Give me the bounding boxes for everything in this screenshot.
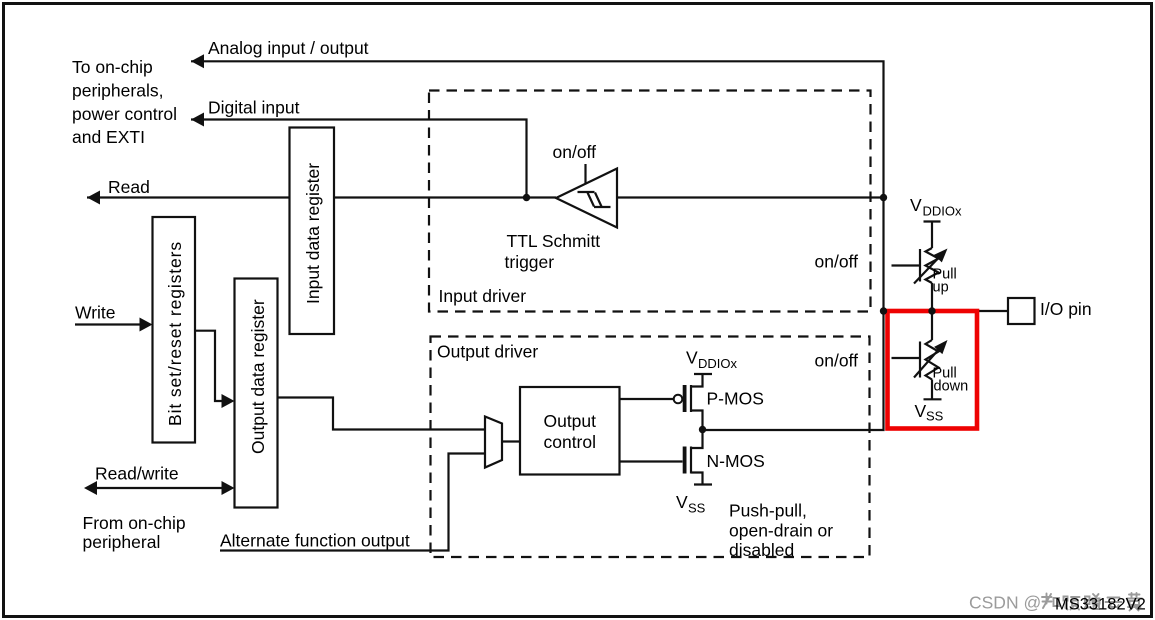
input driver dashed boundary (429, 91, 871, 312)
resistor: pull-up (switchable) (892, 245, 952, 311)
svg-text:Output data register: Output data register (248, 299, 268, 454)
wire: output control to N-MOS gate (620, 460, 683, 462)
power symbol: VDDIOx rail (P-MOS source) (694, 373, 712, 375)
label: push-pull, open-drain or disabled (729, 501, 833, 561)
svg-text:trigger: trigger (505, 252, 555, 272)
wire: alternate function output net (220, 454, 485, 551)
label: VSS (N-MOS) (676, 492, 706, 516)
svg-text:V: V (910, 195, 922, 215)
svg-text:Read: Read (108, 177, 150, 197)
svg-text:Analog input / output: Analog input / output (208, 38, 369, 58)
label: To on-chip peripherals, power control and EXTI (72, 57, 177, 147)
svg-text:SS: SS (688, 501, 706, 516)
node: junction on read line (digital input tap) (523, 194, 530, 201)
svg-text:peripheral: peripheral (83, 532, 161, 552)
svg-text:Alternate function output: Alternate function output (220, 531, 410, 551)
register: output data register (235, 279, 278, 508)
resistor: pull-down (switchable) (892, 311, 952, 399)
node: junction io column / io pin line (880, 307, 887, 314)
svg-text:Push-pull,: Push-pull, (729, 501, 807, 521)
svg-text:Output driver: Output driver (437, 342, 538, 362)
node: junction read line / io column (880, 194, 887, 201)
svg-text:power control: power control (72, 104, 177, 124)
wire: read line to TTL Schmitt trigger (87, 191, 884, 205)
multiplexer (AF mux) (485, 417, 520, 468)
svg-text:SS: SS (926, 409, 944, 424)
label: Pull down (933, 366, 969, 395)
svg-text:V: V (686, 348, 698, 368)
svg-text:TTL Schmitt: TTL Schmitt (507, 231, 601, 251)
label: Pull up (933, 267, 957, 296)
svg-text:Write: Write (75, 303, 116, 323)
wire: output control to P-MOS gate (620, 398, 674, 400)
output control block (520, 387, 620, 475)
svg-text:CSDN @: CSDN @ (969, 593, 1041, 613)
wire: I/O pin net (884, 310, 1009, 312)
highlight: red box around pull-down (888, 311, 978, 429)
svg-text:on/off: on/off (815, 351, 859, 371)
svg-text:control: control (543, 432, 596, 452)
svg-text:MS33182V2: MS33182V2 (1055, 596, 1146, 614)
svg-text:Input data register: Input data register (303, 163, 323, 304)
transistor N-MOS (683, 430, 703, 485)
svg-text:up: up (933, 280, 949, 296)
svg-text:DDIOx: DDIOx (923, 204, 963, 219)
node: junction pull network / io pin line (928, 307, 935, 314)
svg-text:Input driver: Input driver (439, 286, 527, 306)
svg-text:V: V (915, 401, 927, 421)
wire: analog input/output net (191, 54, 884, 430)
power symbol: VSS rail (pull-down) (924, 398, 942, 400)
wire: digital input net (191, 113, 527, 198)
svg-text:and EXTI: and EXTI (72, 127, 145, 147)
label: VSS (pull-down) (915, 401, 944, 424)
label: VDDIOx (P-MOS) (686, 348, 738, 372)
power symbol: VDDIOx rail (pull-up) (924, 222, 941, 249)
watermark: CSDN @知识赠云兽 (969, 593, 1142, 613)
register: bit set/reset registers (153, 217, 196, 443)
svg-text:N-MOS: N-MOS (707, 451, 765, 471)
svg-text:V: V (676, 492, 688, 512)
svg-text:DDIOx: DDIOx (698, 356, 738, 371)
wire: write arrow into bit set/reset registers (75, 318, 153, 332)
svg-text:Output: Output (543, 411, 596, 431)
svg-text:peripherals,: peripherals, (72, 80, 163, 100)
svg-text:From on-chip: From on-chip (83, 513, 186, 533)
svg-text:on/off: on/off (553, 142, 597, 162)
register: input data register (290, 128, 335, 335)
svg-text:Read/write: Read/write (95, 464, 179, 484)
svg-text:To on-chip: To on-chip (72, 57, 153, 77)
svg-text:down: down (934, 379, 969, 395)
I/O pin pad (1008, 298, 1035, 324)
svg-text:Digital input: Digital input (208, 98, 300, 118)
wire: bit set/reset registers to output data register (195, 331, 235, 408)
svg-text:I/O pin: I/O pin (1040, 299, 1092, 319)
output driver dashed boundary (431, 337, 870, 558)
TTL Schmitt trigger U1 (556, 164, 617, 228)
svg-text:P-MOS: P-MOS (707, 389, 764, 409)
wire: output data register to multiplexer (278, 398, 486, 430)
label: From on-chip peripheral (83, 513, 186, 552)
wire: read/write double arrow (84, 481, 235, 495)
svg-text:on/off: on/off (815, 252, 859, 272)
node: push-pull output junction (699, 426, 706, 433)
svg-text:disabled: disabled (729, 540, 794, 560)
transistor P-MOS (674, 374, 703, 430)
label: VDDIOx (pull-up) (910, 195, 962, 219)
svg-text:open-drain or: open-drain or (729, 521, 833, 541)
svg-text:Bit set/reset registers: Bit set/reset registers (165, 241, 185, 426)
power symbol: VSS rail (N-MOS source) (694, 483, 712, 485)
